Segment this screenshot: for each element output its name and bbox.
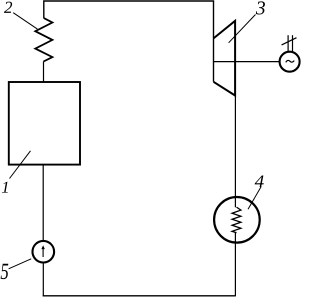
leader line 1 <box>10 151 31 179</box>
generator lead 1 <box>287 35 289 51</box>
wire bottom right vertical up to condenser 4 <box>234 232 236 296</box>
label 3 <box>256 1 265 14</box>
wire turbine 3 to generator <box>214 61 280 63</box>
label 1 <box>2 182 8 193</box>
box 1 (boiler) <box>9 82 80 165</box>
condenser 4 inner zigzag <box>232 207 241 233</box>
leader line 5 <box>9 259 32 269</box>
wire resistor 2 to box 1 <box>43 62 45 83</box>
wire bottom horizontal <box>43 295 236 297</box>
pump 5 arrow <box>42 249 44 258</box>
generator tilde <box>286 60 294 62</box>
label 4 <box>255 175 264 187</box>
wire box 1 to pump 5 <box>42 165 44 241</box>
generator circle <box>280 52 300 72</box>
generator lead slash <box>282 38 297 45</box>
wire top loop: left stub, top horizontal, down to turbine <box>44 1 214 82</box>
generator lead 2 <box>292 35 294 51</box>
leader line 3 <box>229 15 256 43</box>
resistor 2 zigzag <box>35 18 52 61</box>
wire pump 5 to bottom line <box>42 263 44 297</box>
pump 5 circle <box>33 241 55 263</box>
leader line 2 <box>13 13 37 29</box>
label 2 <box>4 2 12 13</box>
turbine 3 <box>214 21 236 96</box>
wire turbine 3 to condenser 4 <box>234 96 236 208</box>
label 5 <box>1 264 9 279</box>
condenser 4 circle <box>214 197 260 243</box>
leader line 4 <box>248 187 261 210</box>
